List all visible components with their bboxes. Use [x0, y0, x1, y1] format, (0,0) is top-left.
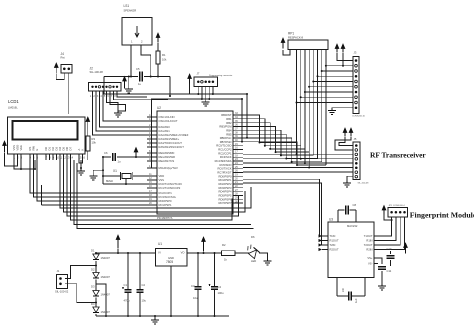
wire J3 pin10 to ground	[332, 107, 353, 110]
svg-text:10u: 10u	[193, 296, 198, 300]
svg-text:D4: D4	[58, 147, 62, 151]
svg-text:A: A	[77, 149, 81, 151]
svg-text:RC3/SCK: RC3/SCK	[220, 155, 232, 159]
power arrow feeding node row	[124, 81, 126, 89]
svg-text:VDD: VDD	[15, 145, 19, 151]
svg-text:C1: C1	[124, 283, 128, 287]
svg-text:C8: C8	[353, 203, 357, 207]
svg-text:RE0/AN5/RD: RE0/AN5/RD	[159, 151, 175, 155]
svg-text:VS+: VS+	[367, 256, 373, 260]
svg-text:RB5: RB5	[226, 132, 232, 136]
wire prog pin2	[201, 87, 203, 100]
svg-text:D6: D6	[251, 235, 255, 239]
power supply top rail	[96, 252, 156, 254]
wire J3 pin2	[326, 65, 353, 67]
svg-text:RC1/T1OSI/CCP2: RC1/T1OSI/CCP2	[159, 186, 181, 190]
power arrow on C6 row	[135, 152, 137, 156]
wire LCD RS to MCU	[30, 160, 147, 193]
svg-text:D7: D7	[68, 147, 72, 151]
MAX232 pin T2OUT	[374, 244, 378, 246]
svg-text:LED: LED	[251, 259, 256, 263]
svg-text:VS-: VS-	[368, 262, 373, 266]
svg-text:MCLR/Vpp/THV: MCLR/Vpp/THV	[159, 166, 178, 170]
svg-text:C9: C9	[341, 288, 345, 292]
power arrow 2 at J3	[342, 49, 344, 53]
wire prog line to MCLR and PGD	[152, 99, 242, 168]
wire RP1 common pin to power	[283, 50, 290, 56]
ground under C11	[381, 284, 383, 286]
svg-text:RS: RS	[28, 147, 32, 151]
wire bundle vertical to J5 pin3	[296, 143, 298, 155]
wire J2 pin2 to MCU	[96, 91, 147, 131]
power +5V arrow at LCD contrast resistor	[87, 122, 89, 130]
svg-text:RA5/AN4/SS/C2OUT: RA5/AN4/SS/C2OUT	[159, 145, 185, 149]
wire MCU TX to MAX232 T1IN	[243, 179, 322, 236]
wire RB7 to pull-up	[243, 142, 326, 165]
wire LCD D5 bus	[64, 160, 246, 212]
capacitor C1	[127, 253, 129, 290]
power supply bottom rail	[96, 315, 229, 317]
svg-text:VDD: VDD	[159, 174, 165, 178]
power arrow near C10	[405, 248, 407, 254]
MAX232 pin T1OUT	[374, 235, 378, 237]
wire J4 pin1 to power	[56, 73, 64, 80]
svg-text:RD4/PSP4: RD4/PSP4	[219, 190, 233, 194]
wire RB2 to pull-up	[243, 123, 305, 149]
wire J5 pin5 from MCU	[243, 162, 353, 164]
svg-text:D2: D2	[51, 147, 55, 151]
LCD pin stubs	[13, 154, 15, 160]
svg-text:1N4007: 1N4007	[101, 310, 111, 314]
capacitor C2	[139, 253, 141, 290]
wire center tap to bottom rail	[96, 284, 106, 316]
wire PGC down to RB6	[246, 94, 248, 138]
power arrow at J4	[55, 68, 57, 74]
svg-text:D6: D6	[65, 147, 69, 151]
svg-text:J3: J3	[354, 51, 357, 55]
svg-text:K: K	[80, 149, 84, 151]
svg-text:C4: C4	[218, 285, 222, 289]
diode D3	[93, 291, 99, 296]
svg-text:RD0/PSP0: RD0/PSP0	[219, 174, 233, 178]
svg-text:D3: D3	[91, 285, 95, 289]
svg-text:PIC16F877A: PIC16F877A	[157, 216, 173, 220]
svg-text:RD5/PSP5: RD5/PSP5	[219, 194, 233, 198]
capacitor C4	[214, 253, 216, 287]
svg-text:1u: 1u	[118, 160, 121, 164]
wire crystal bottom row	[103, 183, 147, 185]
connector J2 body	[89, 83, 122, 92]
svg-text:U3: U3	[329, 218, 333, 222]
MAX232 pin R1IN	[374, 240, 378, 242]
svg-text:RESPACK-8: RESPACK-8	[288, 36, 304, 40]
svg-text:RB7/PGD: RB7/PGD	[220, 140, 232, 144]
svg-text:LM016L: LM016L	[8, 106, 18, 110]
MAX232 C2 pins down	[364, 278, 366, 297]
wire J2 pin7 right	[114, 91, 169, 100]
power arrow at RP1	[282, 43, 284, 49]
wire LCD RW to MCU	[34, 160, 148, 197]
svg-text:8MHz: 8MHz	[106, 179, 114, 183]
svg-text:LCD1: LCD1	[8, 99, 19, 104]
wire J2 pin5 to ground	[107, 91, 119, 111]
svg-text:R2IN: R2IN	[366, 248, 372, 252]
svg-text:J5: J5	[354, 137, 357, 141]
wire J1 pin2 to bridge	[65, 284, 96, 303]
wire LCD D4 bus	[60, 160, 251, 208]
wire J2 pin4 to MCU	[103, 91, 147, 121]
svg-text:J2: J2	[90, 67, 94, 71]
wire ground rail under LCD	[23, 168, 36, 170]
wire LCD VDD to left power arrow	[5, 153, 18, 166]
MCU right pin stubs	[233, 114, 243, 116]
svg-text:R3: R3	[92, 137, 96, 141]
svg-text:VSS: VSS	[12, 145, 16, 151]
capacitor C6	[112, 153, 114, 161]
svg-text:RD2/PSP2: RD2/PSP2	[219, 182, 233, 186]
wire RB0 to pull-up	[243, 115, 297, 143]
svg-text:1N4007: 1N4007	[101, 293, 111, 297]
wire J6 pin1 to MAX232 T1OUT	[378, 217, 392, 236]
MCU left pin stubs	[147, 116, 157, 118]
svg-text:RB6/PGC: RB6/PGC	[220, 136, 232, 140]
svg-text:R1IN: R1IN	[366, 239, 372, 243]
svg-text:470u: 470u	[124, 299, 130, 303]
regulator U1 7805 body	[156, 249, 188, 267]
wire J6 pin4 to MAX232 R2IN	[378, 217, 405, 250]
wire RB5 to pull-up	[243, 134, 318, 158]
wire J2 pin3 to MCU	[100, 91, 148, 127]
svg-text:1N4007: 1N4007	[101, 256, 111, 260]
svg-text:RW: RW	[31, 146, 35, 151]
svg-text:T2IN: T2IN	[330, 243, 336, 247]
wire J3 pin2 power	[342, 53, 344, 66]
ground right of LCD ground (crystal caps)	[93, 170, 103, 173]
svg-text:R2OUT: R2OUT	[330, 248, 339, 252]
svg-text:7805: 7805	[166, 260, 173, 264]
wire LCD long bus line b	[77, 163, 254, 229]
svg-text:MAX232: MAX232	[347, 224, 358, 228]
diode D2	[93, 273, 99, 278]
wire J2 pin8 right	[117, 91, 147, 97]
wire prog pin4	[208, 87, 210, 100]
svg-text:RP1: RP1	[288, 32, 294, 36]
svg-text:RF Transreceiver: RF Transreceiver	[370, 151, 426, 160]
svg-text:SIL-100-08: SIL-100-08	[358, 183, 370, 185]
svg-text:RB2: RB2	[226, 121, 232, 125]
wire left end down to prog rail	[104, 77, 190, 95]
wire J5 pin1 power	[339, 137, 353, 146]
wire RB1 to pull-up	[243, 119, 301, 146]
wire RB6 to pull-up	[243, 138, 322, 162]
wire J3 pin7	[305, 91, 353, 93]
power arrow J5 a	[344, 133, 346, 137]
wire J2 pin6 to ground	[110, 91, 126, 111]
svg-text:RC2/CCP1: RC2/CCP1	[218, 151, 232, 155]
wire LS1 pin2 down and jog right	[141, 45, 151, 77]
svg-text:U1: U1	[158, 242, 162, 246]
wire J4 pin2 down (reset)	[68, 73, 70, 114]
svg-text:D4: D4	[91, 302, 95, 306]
programming connector body	[194, 77, 218, 87]
wire J3 pin9	[297, 102, 354, 104]
svg-text:SPEAKER: SPEAKER	[124, 9, 137, 13]
power +5V arrow left of LCD	[4, 146, 6, 153]
svg-text:RD3/PSP3: RD3/PSP3	[219, 186, 233, 190]
wire prog pin3 to ground	[205, 87, 207, 101]
svg-text:RB1: RB1	[226, 117, 232, 121]
svg-text:10k: 10k	[162, 58, 167, 62]
svg-text:RB3/PGM: RB3/PGM	[219, 125, 232, 129]
svg-text:J4: J4	[61, 52, 65, 56]
power +5V arrow at R1	[157, 38, 159, 43]
wire bundle vertical to J5 pin4	[300, 146, 302, 159]
wire LCD VEE down	[20, 160, 22, 169]
LCD LCD1 body	[8, 117, 86, 154]
svg-text:C3: C3	[191, 284, 195, 288]
capacitor C10	[390, 251, 392, 254]
wire prog pin5	[212, 87, 214, 95]
svg-text:C10: C10	[387, 247, 392, 251]
capacitor C9	[337, 295, 348, 297]
wire J3 pin1 power	[337, 53, 353, 61]
LED D6	[245, 244, 260, 259]
wire node row y76 (speaker/cap/R1)	[104, 76, 138, 78]
svg-text:RB0/INT: RB0/INT	[221, 113, 232, 117]
wire J3 pin5	[313, 81, 353, 83]
svg-text:VSS: VSS	[159, 178, 165, 182]
svg-text:T1IN: T1IN	[330, 234, 336, 238]
crystal X1	[122, 173, 131, 178]
svg-text:10k: 10k	[92, 141, 97, 145]
wire J5 pin4 from MCU	[243, 158, 353, 160]
power arrow at J6	[383, 210, 385, 215]
wire LED to ground	[259, 253, 268, 260]
svg-text:1uF: 1uF	[354, 298, 358, 303]
wire J3 pin8	[301, 96, 353, 98]
resistor pack RP1 body	[288, 40, 328, 50]
wire C6 left down to crystal node	[102, 157, 104, 176]
svg-text:X1: X1	[113, 169, 117, 173]
svg-text:10u: 10u	[142, 299, 147, 303]
svg-text:D0: D0	[44, 147, 48, 151]
wire right end down to MCU top	[169, 77, 171, 97]
ground at J2 area	[117, 111, 119, 113]
MAX232 pin R2IN	[374, 249, 378, 251]
wire RB3 to pull-up	[243, 126, 309, 152]
speaker LS1 body	[122, 18, 152, 46]
svg-text:RA3/AN3/VREF+: RA3/AN3/VREF+	[159, 137, 180, 141]
wire LCD D7 bus	[71, 160, 233, 220]
svg-text:T1OUT: T1OUT	[364, 234, 373, 238]
svg-text:RD7/PSP7: RD7/PSP7	[219, 201, 233, 205]
svg-text:RA0/AN0: RA0/AN0	[159, 125, 171, 129]
resistor R2	[222, 251, 236, 256]
svg-text:VEE: VEE	[19, 145, 23, 151]
capacitor C11	[378, 266, 386, 268]
wire bundle vertical to J5 pin6	[308, 152, 310, 167]
resistor R1	[156, 51, 160, 64]
ground on bottom rail	[154, 316, 156, 318]
svg-text:R2: R2	[222, 243, 226, 247]
wire R1 top	[157, 43, 159, 51]
wire LCD VSS to ground rail	[14, 160, 23, 169]
svg-text:J1: J1	[57, 269, 60, 273]
svg-text:RB4: RB4	[226, 128, 232, 132]
power arrow at programming connector	[189, 79, 191, 84]
diode D4	[93, 307, 99, 312]
wire J6 pin2 to MAX232 R1IN	[378, 217, 396, 241]
svg-text:T2OUT: T2OUT	[364, 243, 373, 247]
MAX232 pin VS+	[374, 257, 378, 259]
wire VS+ to C10	[378, 258, 382, 264]
wire LS1 pin1 down	[130, 45, 132, 77]
svg-text:Rst: Rst	[61, 56, 65, 60]
svg-text:RC4/SDI/SDA: RC4/SDI/SDA	[215, 159, 232, 163]
svg-text:SIL-100-08: SIL-100-08	[90, 70, 104, 74]
capacitor C3	[197, 253, 199, 287]
svg-text:LS1: LS1	[124, 4, 130, 8]
MAX232 C1 pins down	[336, 278, 338, 297]
wire J5 pin8 to ground	[347, 176, 353, 181]
svg-text:RD6/PSP6: RD6/PSP6	[219, 197, 233, 201]
connector J6 body	[388, 208, 408, 218]
svg-text:RC5/SDO: RC5/SDO	[220, 163, 232, 167]
svg-text:RC6/TX/CK: RC6/TX/CK	[217, 167, 231, 171]
net arrows at MAX232 left pins	[319, 234, 323, 237]
wires RP1 pins down	[296, 50, 298, 143]
MAX232 pin VS-	[374, 263, 378, 265]
svg-text:Fingerprint Module: Fingerprint Module	[410, 210, 474, 219]
power arrow +5V at U1 output	[203, 242, 205, 252]
wire crystal stub up	[125, 179, 127, 185]
svg-text:JP1 CONN-SIL4: JP1 CONN-SIL4	[389, 205, 406, 207]
wire J3 pin4	[318, 75, 354, 77]
wire prog pin1	[197, 87, 199, 95]
wire LCD E to MCU	[37, 160, 147, 201]
svg-text:E: E	[35, 149, 39, 151]
svg-text:RE1/AN6/WR: RE1/AN6/WR	[159, 155, 175, 159]
wire J1 pin1 to bridge	[65, 266, 96, 279]
svg-text:RD1/PSP1: RD1/PSP1	[159, 203, 173, 207]
wire crystal left	[103, 176, 120, 184]
svg-text:RC0/T1OSO: RC0/T1OSO	[216, 144, 231, 148]
wire programming power rail	[189, 84, 191, 95]
svg-text:D2: D2	[91, 268, 95, 272]
resistor R3 (LCD contrast)	[86, 136, 90, 151]
svg-text:RA4/T0CKI/C1OUT: RA4/T0CKI/C1OUT	[159, 141, 183, 145]
svg-text:CONN-SIL10: CONN-SIL10	[352, 116, 366, 118]
wire diode chain	[95, 253, 97, 254]
svg-text:R1: R1	[162, 53, 166, 57]
wire MCU RX to MAX232 T2IN	[243, 183, 322, 245]
svg-text:C2: C2	[142, 283, 146, 287]
wire J3 pin3	[322, 70, 353, 72]
MAX232 pin T1IN	[322, 235, 328, 237]
MAX232 pin R2OUT	[322, 249, 328, 251]
capacitor C5	[139, 72, 141, 82]
wire J5 pin3 from MCU	[243, 153, 353, 155]
MAX232 pin R1OUT	[322, 240, 328, 242]
wire J5 pin6 from MCU	[243, 167, 353, 169]
svg-text:RD1/PSP1: RD1/PSP1	[219, 178, 233, 182]
ground drop from node	[128, 77, 130, 89]
wire C6 row	[103, 156, 111, 158]
wire LCD D6 bus	[67, 160, 239, 216]
svg-text:RE2/AN7/CS: RE2/AN7/CS	[159, 159, 175, 163]
power arrow +12V on rail	[117, 240, 119, 249]
connector J5 body	[353, 142, 360, 180]
power arrow J3 pin1	[336, 49, 338, 53]
connector J4 body	[61, 65, 72, 74]
microcontroller U2 body PIC16F877A	[157, 111, 233, 214]
svg-text:1N4007: 1N4007	[101, 275, 111, 279]
svg-text:OSC1/CLKIN: OSC1/CLKIN	[159, 115, 175, 119]
MAX232 pin T2IN	[322, 244, 328, 246]
connector J1 body	[57, 275, 68, 289]
wire crystal right to MCU	[133, 175, 147, 177]
wire VS- stub	[374, 263, 378, 265]
connector J3 body	[353, 57, 359, 114]
svg-text:C5: C5	[136, 67, 140, 71]
wire bundle vertical to J5 pin5	[304, 149, 306, 163]
capacitor C8 over MAX232	[338, 209, 345, 211]
svg-text:D3: D3	[54, 147, 58, 151]
svg-text:C6: C6	[104, 151, 108, 155]
svg-text:RC7/RX/DT: RC7/RX/DT	[217, 171, 232, 175]
svg-text:1u: 1u	[138, 82, 141, 86]
wire R2 to LED	[235, 252, 249, 254]
svg-text:D1: D1	[47, 147, 51, 151]
U1 output rail	[187, 252, 222, 254]
svg-text:VO: VO	[181, 251, 185, 255]
wire U1 ground pin	[170, 266, 172, 316]
svg-text:D5: D5	[61, 147, 65, 151]
svg-text:RC0/T1OSO/T1CKI: RC0/T1OSO/T1CKI	[159, 182, 183, 186]
svg-text:RC1/CCP2: RC1/CCP2	[218, 148, 232, 152]
diode D1	[93, 254, 99, 259]
svg-text:J7: J7	[197, 72, 200, 76]
svg-text:SIL-100-02: SIL-100-02	[55, 290, 69, 294]
wire RB4 to pull-up	[243, 130, 313, 155]
power arrow J5 b	[350, 133, 352, 137]
wire LCD long bus line a	[74, 160, 251, 225]
svg-text:OSC2/CLKOUT: OSC2/CLKOUT	[159, 119, 178, 123]
wire J6 pin3 to MAX232 T2OUT	[378, 217, 400, 245]
svg-text:VI: VI	[158, 251, 161, 255]
svg-text:RD0/PSP0: RD0/PSP0	[159, 199, 173, 203]
svg-text:R1OUT: R1OUT	[330, 239, 339, 243]
svg-text:RC3/SCK/SCL: RC3/SCK/SCL	[159, 195, 177, 199]
MAX232 U3 body	[328, 222, 374, 278]
wire J5 pin7 stub	[243, 171, 353, 173]
wire LCD D4 line to MCU	[42, 204, 148, 206]
wire J5 pin2 power	[335, 137, 353, 150]
wire backlight pins	[79, 160, 83, 163]
wire J2 pin1 to MCU	[93, 91, 148, 135]
svg-text:RA1/AN1: RA1/AN1	[159, 129, 171, 133]
wire J3 pin6	[309, 86, 353, 88]
svg-text:U2: U2	[157, 106, 161, 110]
svg-text:RC2/CCP1: RC2/CCP1	[159, 191, 173, 195]
wire PGD down to RB7	[241, 99, 243, 142]
svg-text:D1: D1	[91, 249, 95, 253]
svg-text:RA2/AN2/VREF-/CVREF: RA2/AN2/VREF-/CVREF	[159, 133, 189, 137]
svg-text:100u: 100u	[218, 291, 224, 295]
svg-text:C11: C11	[387, 269, 392, 273]
ground below LCD	[80, 160, 82, 168]
wire R1 bottom to node	[157, 64, 159, 77]
